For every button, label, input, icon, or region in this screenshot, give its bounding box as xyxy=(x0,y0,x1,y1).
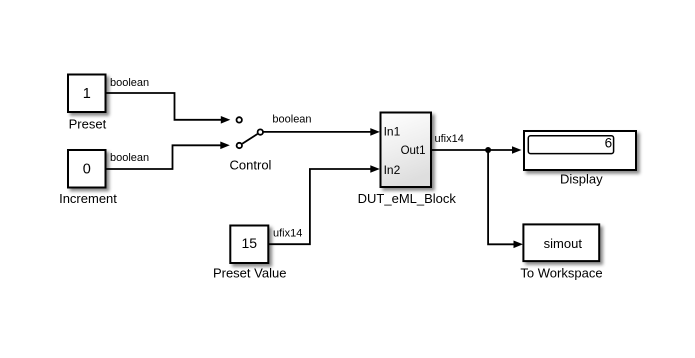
svg-text:6: 6 xyxy=(605,136,613,151)
svg-text:ufix14: ufix14 xyxy=(273,228,302,240)
constant block Preset xyxy=(68,75,106,113)
svg-text:boolean: boolean xyxy=(110,152,149,164)
display block Display xyxy=(524,131,636,170)
svg-text:boolean: boolean xyxy=(110,77,149,89)
wire from switch to DUT In1 xyxy=(263,128,380,136)
svg-text:boolean: boolean xyxy=(272,114,311,126)
subsystem block DUT_eML_Block xyxy=(381,113,432,188)
svg-text:In1: In1 xyxy=(384,124,401,138)
svg-text:ufix14: ufix14 xyxy=(435,133,464,145)
svg-text:DUT_eML_Block: DUT_eML_Block xyxy=(358,191,457,206)
svg-text:Increment: Increment xyxy=(59,191,117,206)
svg-text:To Workspace: To Workspace xyxy=(520,265,602,280)
to-workspace block simout xyxy=(523,224,599,261)
svg-text:Preset: Preset xyxy=(69,117,107,132)
svg-text:0: 0 xyxy=(83,162,91,178)
svg-text:simout: simout xyxy=(544,236,583,251)
svg-text:Control: Control xyxy=(230,158,272,173)
svg-text:Preset Value: Preset Value xyxy=(213,265,286,280)
manual switch Control xyxy=(237,117,263,148)
svg-text:In2: In2 xyxy=(384,163,401,177)
wire from Preset to switch input 1 xyxy=(106,93,231,124)
wire from DUT Out1 to Display xyxy=(431,146,522,154)
constant block Increment xyxy=(68,150,106,188)
wire from Increment to switch input 2 xyxy=(106,142,230,170)
svg-text:1: 1 xyxy=(83,86,91,102)
wire from Preset Value to DUT In2 xyxy=(268,165,380,244)
svg-text:15: 15 xyxy=(242,235,258,251)
svg-text:Display: Display xyxy=(560,171,603,186)
wire from junction to To Workspace xyxy=(488,150,523,248)
svg-text:Out1: Out1 xyxy=(401,145,426,157)
constant block Preset Value xyxy=(230,226,268,264)
junction node xyxy=(485,147,491,153)
